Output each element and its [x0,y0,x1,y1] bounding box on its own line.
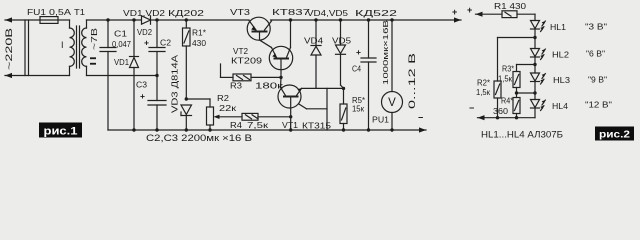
svg-text:R4*: R4* [501,97,513,106]
capacitor C1 [106,18,109,21]
svg-text:VD4,VD5: VD4,VD5 [307,9,349,18]
svg-text:0,047: 0,047 [112,40,132,49]
svg-text:C3: C3 [136,81,148,90]
wire: mains top rail left [5,19,40,21]
wire: branch to R3 [517,64,536,66]
wire: fuse to transformer [58,19,70,21]
svg-text:R1*: R1* [192,29,206,38]
svg-text:+: + [140,91,145,101]
node: mains input arrow bottom [5,73,12,78]
label fig.1 [39,123,82,138]
svg-text:HL1: HL1 [550,23,567,32]
svg-text:"9 В": "9 В" [588,75,607,85]
svg-text:I: I [61,40,64,50]
capacitor C3 [156,76,158,101]
resistor R1 (fig2) [502,11,517,18]
svg-text:рис.1: рис.1 [44,126,78,138]
svg-text:"3 В": "3 В" [585,22,607,32]
svg-text:C2,C3 2200мк ×16 В: C2,C3 2200мк ×16 В [146,133,252,143]
svg-text:КТ837: КТ837 [272,8,311,17]
diode VD1 [132,18,135,21]
node: output minus arrow [419,127,426,132]
core [76,26,78,68]
svg-text:R4: R4 [230,121,243,130]
capacitor C2 [155,18,158,21]
fuse FU1 [40,17,58,24]
zener VD3 [185,97,188,100]
svg-text:360: 360 [493,107,509,116]
LED HL3 [531,73,540,81]
resistor R4 [242,113,258,120]
svg-text:VD1: VD1 [114,58,130,67]
svg-text:КТ209: КТ209 [231,57,263,66]
voltmeter PU1 [390,18,393,21]
diode VD4 [314,18,317,21]
svg-text:R3: R3 [230,82,243,91]
svg-text:R2: R2 [217,94,230,103]
svg-text:+: + [452,7,457,17]
svg-text:15к: 15к [352,105,364,114]
wire: secondary top rail [87,19,142,21]
potentiometer R2 [186,98,210,100]
svg-text:7,5к: 7,5к [247,121,269,130]
svg-text:~220В: ~220В [4,28,14,70]
resistor R1 [185,18,188,21]
primary winding I [69,20,71,28]
svg-text:VT2: VT2 [233,47,249,56]
wire: VT1 collector wire [302,87,344,89]
svg-text:PU1: PU1 [372,116,390,125]
LED HL4 [531,100,540,108]
wire: mains double vertical [24,20,26,76]
LED HL1 [531,21,540,29]
svg-text:C4: C4 [352,65,361,74]
svg-text:R1 430: R1 430 [494,2,527,11]
svg-text:430: 430 [192,39,207,48]
svg-text:+: + [144,38,149,48]
wire: branch to R2 [498,37,536,39]
svg-text:FU1: FU1 [27,8,47,17]
svg-text:C2: C2 [160,39,172,48]
svg-text:~7В: ~7В [90,28,99,50]
capacitor C4 [367,18,370,21]
svg-text:HL3: HL3 [553,76,571,85]
LED HL2 [531,49,540,57]
resistor R3 [220,64,222,77]
svg-text:V: V [388,97,396,109]
svg-text:VT3: VT3 [230,8,251,17]
svg-text:T1: T1 [74,8,86,17]
svg-text:−: − [418,113,423,123]
svg-text:0,5A: 0,5A [49,8,72,17]
svg-text:"6 В": "6 В" [586,49,605,59]
svg-text:1000мк×16В: 1000мк×16В [381,20,390,85]
node: output plus arrow [454,17,461,22]
svg-text:HL1...HL4 АЛ307Б: HL1...HL4 АЛ307Б [481,130,563,141]
svg-text:VD4: VD4 [304,37,324,46]
wire: bottom rail [108,129,426,131]
wire: secondary bottom wire [87,75,158,77]
svg-text:КД202: КД202 [168,9,205,18]
diode VD5 [339,18,342,21]
wire: fig2 bottom wire [478,117,536,119]
svg-text:1,5к: 1,5к [498,75,512,84]
svg-text:1,5к: 1,5к [476,88,490,97]
wire: branch R3/R4 junction [517,92,536,94]
svg-text:22к: 22к [219,104,237,113]
svg-text:VD3 Д814А: VD3 Д814А [171,54,180,113]
resistor R2 (fig2) [494,81,501,98]
svg-text:HL2: HL2 [552,51,570,60]
svg-text:C1: C1 [114,30,128,39]
node: mains input arrow top [5,17,12,22]
wire: VT2 collector to top rail [290,20,292,48]
node: fig2 minus arrow [478,115,485,120]
node: C2/C3 midpoint junction [155,74,158,77]
resistor R5 [343,88,345,104]
svg-text:КД522: КД522 [355,9,398,18]
secondary winding II [86,20,88,28]
svg-text:0...12 В: 0...12 В [407,53,418,109]
resistor R3 (fig2) [513,72,520,88]
resistor R4 (fig2) [513,98,520,114]
svg-text:−: − [469,103,474,113]
wire: mains bottom wire left [5,75,70,77]
wire: VT1 base lead to bottom rail [290,98,292,131]
svg-text:"12 В": "12 В" [585,100,612,110]
label fig.2 [595,127,634,141]
svg-text:180к: 180к [255,82,284,91]
wire: top rail right segment [271,19,462,21]
svg-text:VD5: VD5 [332,37,352,46]
svg-text:R3*: R3* [502,65,514,74]
diode VD2 [142,16,151,24]
svg-text:рис.2: рис.2 [599,129,630,141]
svg-text:R2*: R2* [477,79,490,88]
wire: emitter drop to bottom rail [326,88,328,130]
VT1 emitter arrow to rail [299,104,307,109]
svg-text:HL4: HL4 [552,102,569,111]
wire: VT3 base to VT2 [259,33,261,40]
svg-text:+: + [467,5,472,15]
svg-text:II: II [89,56,98,67]
svg-text:VD2: VD2 [137,28,153,37]
svg-text:+: + [356,47,361,57]
